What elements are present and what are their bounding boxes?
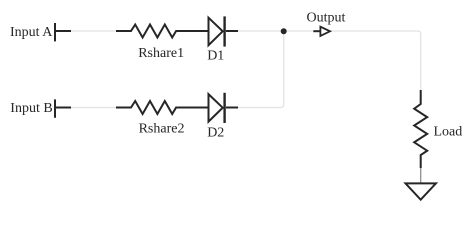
svg-text:Rshare1: Rshare1: [138, 46, 184, 61]
svg-text:Input A: Input A: [10, 25, 53, 40]
svg-text:D2: D2: [207, 125, 224, 140]
svg-text:Output: Output: [307, 10, 346, 25]
svg-text:Input B: Input B: [10, 101, 52, 116]
svg-text:Rshare2: Rshare2: [139, 121, 185, 136]
svg-text:Load: Load: [434, 124, 463, 139]
svg-text:D1: D1: [207, 49, 224, 64]
